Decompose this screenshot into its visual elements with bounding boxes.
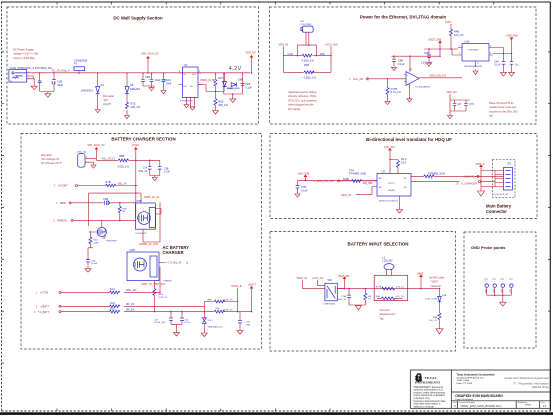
note: RH label charger xyxy=(41,153,62,165)
SECTION D: level translator box xyxy=(270,134,537,219)
doc number row xyxy=(453,401,547,408)
svg-text:VBL_DC1.5: VBL_DC1.5 xyxy=(102,156,116,160)
svg-text:DC Wall Supply Section: DC Wall Supply Section xyxy=(113,16,163,21)
svg-text:VBL_DC/A_5V: VBL_DC/A_5V xyxy=(88,143,105,147)
ground under jack xyxy=(91,164,96,168)
capacitor C8B opamp rail xyxy=(392,55,411,66)
LED D6 xyxy=(223,73,241,90)
svg-text:C: C xyxy=(454,404,456,408)
svg-text:ETM, DVI, only powered: ETM, DVI, only powered xyxy=(288,98,317,102)
ground under C35 xyxy=(237,331,243,335)
capacitor C48 xyxy=(494,54,505,73)
svg-text:CHARGER: CHARGER xyxy=(163,250,184,255)
capacitor C2B xyxy=(40,73,64,94)
port GVL_D5 xyxy=(349,77,406,81)
svg-text:Texas Instruments Incorporated: Texas Instruments Incorporated xyxy=(457,373,495,376)
svg-text:2.2R_1%: 2.2R_1% xyxy=(224,300,233,302)
zener D7 xyxy=(227,77,243,90)
svg-text:VDD7_5VB: VDD7_5VB xyxy=(428,38,442,42)
note: separate feed text xyxy=(288,90,317,111)
svg-text:R5B: R5B xyxy=(159,294,164,296)
svg-text:C34: C34 xyxy=(143,168,148,170)
svg-text:D4: D4 xyxy=(101,83,105,87)
resistor R17 xyxy=(214,92,229,110)
svg-text:VBAT_IN: VBAT_IN xyxy=(297,276,308,280)
svg-text:Connector: Connector xyxy=(486,209,507,214)
connector J1 DC power jack xyxy=(9,66,52,83)
svg-text:VDD_IN: VDD_IN xyxy=(279,42,289,46)
svg-text:rail.: rail. xyxy=(489,114,493,118)
svg-text:5.1K: 5.1K xyxy=(401,160,407,164)
svg-text:DNF: DNF xyxy=(246,325,251,327)
svg-text:C4B: C4B xyxy=(424,53,429,55)
svg-text:CTL-BQ_24: CTL-BQ_24 xyxy=(168,261,182,265)
svg-text:Q2B: Q2B xyxy=(130,248,135,252)
note: 3rd RH label xyxy=(429,275,445,287)
capacitor C3A xyxy=(337,289,358,305)
svg-text:5.76_1%: 5.76_1% xyxy=(391,90,402,94)
svg-text:Place C8 and C76 as: Place C8 and C76 as xyxy=(489,101,514,105)
svg-text:0.1uF: 0.1uF xyxy=(494,65,500,67)
svg-text:DNF_16: DNF_16 xyxy=(138,171,147,173)
ground under C4B xyxy=(427,61,432,66)
diode D4 xyxy=(81,73,105,108)
svg-text:0.1uF: 0.1uF xyxy=(185,322,191,324)
SECTION C: Battery charger box xyxy=(21,134,262,350)
ground under C7B xyxy=(295,193,300,198)
port START xyxy=(53,219,136,223)
port TS_BATT xyxy=(34,310,252,314)
ground under R18 xyxy=(385,101,390,104)
svg-text:Out 2mA: Out 2mA xyxy=(380,308,391,312)
svg-text:C4B: C4B xyxy=(91,260,96,262)
svg-text:CON_PWR2: CON_PWR2 xyxy=(300,24,312,26)
svg-text:+VCC_5VA: +VCC_5VA xyxy=(325,42,338,46)
svg-text:D5: D5 xyxy=(130,83,134,87)
junctions probe rail xyxy=(494,294,504,296)
regulator U14 xyxy=(458,40,493,68)
svg-text:100_1%: 100_1% xyxy=(454,33,464,37)
ground under R17 xyxy=(213,110,219,115)
svg-text:DQ_PM: DQ_PM xyxy=(363,181,372,185)
switch U40 xyxy=(324,278,345,306)
svg-text:VDD5B_AC_CHG: VDD5B_AC_CHG xyxy=(139,243,158,246)
svg-text:+10uF: +10uF xyxy=(91,263,98,265)
svg-text:1N4004S1: 1N4004S1 xyxy=(81,89,94,93)
svg-text:5001: 5001 xyxy=(500,289,502,293)
wire: U2 pin2 link xyxy=(198,85,224,92)
svg-text:R16: R16 xyxy=(218,76,223,80)
svg-text:AC-DET: AC-DET xyxy=(58,184,68,188)
svg-text:100K: 100K xyxy=(94,242,100,244)
wire: vcc feed xyxy=(298,181,378,186)
resistor R50 xyxy=(359,289,373,305)
power flag VDD_5V xyxy=(246,51,256,73)
resistor R61 xyxy=(110,301,136,308)
net label CHG_TS xyxy=(464,175,479,179)
svg-text:0R_1%: 0R_1% xyxy=(126,307,135,311)
svg-text:DNL_1%: DNL_1% xyxy=(126,288,137,292)
svg-text:VDD_5V0_PG: VDD_5V0_PG xyxy=(430,74,447,78)
ground under U9 xyxy=(397,208,403,213)
svg-text:200_1%: 200_1% xyxy=(131,105,141,109)
svg-text:SN74LVC2T45DCU: SN74LVC2T45DCU xyxy=(379,201,399,203)
wire: U14 output rail xyxy=(452,48,512,56)
ground under probes xyxy=(500,302,506,306)
svg-text:3rd RH Label: 3rd RH Label xyxy=(429,275,445,279)
grounds under U2 xyxy=(184,103,189,108)
svg-text:(PMOSSW): (PMOSSW) xyxy=(324,304,336,306)
svg-text:Power Distribution: Power Distribution xyxy=(455,398,474,401)
svg-text:C89: C89 xyxy=(145,75,150,79)
ground under C3A R50 xyxy=(356,305,362,310)
svg-text:R1B: R1B xyxy=(304,63,309,67)
svg-text:D2A: D2A xyxy=(442,294,447,297)
svg-text:VDD_5V: VDD_5V xyxy=(246,51,256,55)
svg-text:12500 TI Blvd: 12500 TI Blvd xyxy=(457,380,470,382)
svg-text:2.2R_1%: 2.2R_1% xyxy=(224,309,233,311)
net label HDQ_5A xyxy=(341,193,372,197)
ground under C8 C76 xyxy=(448,111,453,119)
junction VCHG node xyxy=(135,160,151,162)
junction charger loop xyxy=(135,192,137,194)
capacitor C49 xyxy=(510,54,519,73)
svg-text:MBB: MBB xyxy=(60,201,66,205)
svg-text:TPS76333: TPS76333 xyxy=(468,50,479,52)
svg-text:C76: C76 xyxy=(469,102,474,106)
resistor R89 PROG row xyxy=(204,300,237,312)
svg-text:PWRGD: PWRGD xyxy=(164,280,173,282)
svg-text:VDD_DC/A_5V: VDD_DC/A_5V xyxy=(141,52,159,56)
power flag VDD7_5VB xyxy=(428,38,442,57)
svg-text:Bi-directional level translato: Bi-directional level translator for HDQ … xyxy=(366,137,452,142)
wire: 5VB rail xyxy=(424,48,458,50)
svg-text:VDD_AN: VDD_AN xyxy=(446,90,457,94)
resistor R15 xyxy=(126,102,141,115)
grounds under C48 C49 xyxy=(501,72,507,76)
resistor R4B xyxy=(445,21,464,49)
title block xyxy=(410,370,550,408)
svg-text:RH Label: RH Label xyxy=(41,153,52,157)
resistor R16 xyxy=(214,73,223,92)
resistor R18 divider xyxy=(386,79,402,101)
svg-text:R1B: R1B xyxy=(122,208,127,210)
svg-text:SMAJ5A: SMAJ5A xyxy=(130,87,140,91)
svg-text:C8: C8 xyxy=(458,102,462,106)
net label PROG_B xyxy=(204,285,242,313)
resistor R62 xyxy=(110,306,136,313)
svg-text:C3B: C3B xyxy=(164,168,169,170)
resistor R1B pullup xyxy=(389,157,407,173)
capacitor C3 xyxy=(143,73,167,86)
junctions VBAT rail xyxy=(344,288,441,290)
svg-text:VBL_IN: VBL_IN xyxy=(118,181,127,185)
ground under C49 xyxy=(509,72,515,76)
svg-text:PTH08080W: PTH08080W xyxy=(180,101,193,103)
ground under R5A xyxy=(436,328,443,334)
svg-text:OMAP35X EVM MAIN BOARD: OMAP35X EVM MAIN BOARD xyxy=(455,394,503,398)
svg-text:U2: U2 xyxy=(184,63,188,67)
svg-text:TEXAS: TEXAS xyxy=(425,376,437,380)
svg-text:Dallas, TX 75243: Dallas, TX 75243 xyxy=(457,383,474,385)
svg-text:VDD_5VA: VDD_5VA xyxy=(506,34,518,38)
svg-text:100_1%: 100_1% xyxy=(429,320,437,322)
ground under U14 xyxy=(473,70,478,75)
svg-text:5001: 5001 xyxy=(492,289,494,293)
junction on opamp input xyxy=(387,78,389,80)
svg-text:SMBJ5A5.0-13: SMBJ5A5.0-13 xyxy=(208,326,223,329)
svg-text:measure": measure" xyxy=(431,284,442,288)
svg-text:PWRON: PWRON xyxy=(57,219,67,223)
wire: probe gnd rail xyxy=(487,295,512,302)
svg-text:15uF: 15uF xyxy=(57,83,63,87)
charger control loop xyxy=(89,193,161,242)
svg-text:JP1: JP1 xyxy=(507,161,512,165)
svg-text:0.1uF: 0.1uF xyxy=(164,172,170,174)
junctions U14 output xyxy=(503,53,513,55)
svg-text:DC_5V_Reg_A: DC_5V_Reg_A xyxy=(52,68,70,72)
ground under loop xyxy=(230,94,236,103)
svg-text:[+]: [+] xyxy=(516,64,519,67)
SECTION B: Power for the Ethernet box xyxy=(270,7,537,124)
svg-text:TLV3011AIDBV: TLV3011AIDBV xyxy=(415,86,431,89)
svg-text:TS_BATT: TS_BATT xyxy=(38,310,50,314)
svg-text:+BATT: +BATT xyxy=(248,282,256,286)
svg-text:Power for the Ethernet, DVI,JT: Power for the Ethernet, DVI,JTAG domain xyxy=(360,15,447,20)
svg-text:1%: 1% xyxy=(368,299,371,301)
svg-text:Voltage = 5.0V +/- 5%: Voltage = 5.0V +/- 5% xyxy=(13,52,39,56)
svg-text:R8B: R8B xyxy=(119,154,124,158)
junctions 5VB rail xyxy=(428,48,452,57)
svg-text:D1-2: D1-2 xyxy=(208,320,214,322)
svg-text:+VTTB: +VTTB xyxy=(40,290,48,294)
resistor R2B shunt bottom xyxy=(304,71,317,79)
svg-text:R17B: R17B xyxy=(391,87,398,91)
svg-text:0.02_1%: 0.02_1% xyxy=(396,296,404,298)
svg-text:RH Label: RH Label xyxy=(103,94,114,98)
svg-text:508_1%: 508_1% xyxy=(218,103,228,107)
capacitor C35 xyxy=(238,312,251,331)
svg-text:INSTRUMENTS: INSTRUMENTS xyxy=(415,380,440,384)
svg-text:C1B: C1B xyxy=(245,82,250,86)
svg-text:R5A: R5A xyxy=(433,316,438,319)
svg-text:TP2: TP2 xyxy=(492,279,495,281)
svg-text:DQB: DQB xyxy=(343,177,349,181)
power flag VCHG xyxy=(132,143,140,160)
wire: charger output down xyxy=(154,281,156,289)
svg-text:"AC": "AC" xyxy=(103,98,109,102)
charger Q2 xyxy=(127,242,166,281)
connector J11 xyxy=(494,161,513,196)
SECTION F: GND probe points box xyxy=(464,232,536,348)
svg-text:PMOSFET: PMOSFET xyxy=(106,241,117,243)
ground battery return xyxy=(478,187,485,197)
svg-text:TP3: TP3 xyxy=(500,279,503,281)
resistor R30 xyxy=(89,231,99,248)
svg-text:C48: C48 xyxy=(494,61,499,63)
diode D5 xyxy=(125,73,140,102)
svg-text:10uF_16: 10uF_16 xyxy=(337,299,346,301)
svg-text:Rev: Rev xyxy=(542,402,545,404)
ground under caps xyxy=(45,94,51,98)
svg-text:A_CHARGER: A_CHARGER xyxy=(461,182,477,186)
regulator U2 xyxy=(179,63,203,104)
svg-text:subject to change.: subject to change. xyxy=(414,404,435,408)
zener cap loop xyxy=(224,73,243,94)
MOSFET Q3 high side xyxy=(136,199,162,242)
sense resistor box xyxy=(374,275,408,300)
svg-text:+10uF_16V: +10uF_16V xyxy=(154,322,166,324)
svg-text:R4B: R4B xyxy=(454,30,459,34)
junctions bottom rail xyxy=(154,292,253,313)
svg-text:BATTERY INPUT SELECTION: BATTERY INPUT SELECTION xyxy=(348,242,409,247)
svg-text:+VCC_5A: +VCC_5A xyxy=(312,276,324,280)
wire: jack pin2 pin3 drop xyxy=(27,76,35,86)
svg-text:51.0: 51.0 xyxy=(110,287,116,291)
probe point TP1 xyxy=(484,279,489,295)
wire: sense bridge xyxy=(283,45,331,72)
svg-text:0.1uF: 0.1uF xyxy=(398,62,405,66)
svg-text:C7B: C7B xyxy=(301,185,306,189)
note: out 2mA measurement tap xyxy=(380,308,396,320)
svg-text:TPS76333MDBVR: TPS76333MDBVR xyxy=(464,66,483,68)
op-amp U7 comparator xyxy=(391,56,462,88)
power flag VDD_DC/A_5V xyxy=(141,52,159,73)
wire: main VBAT rail xyxy=(337,288,439,290)
port AC-DET xyxy=(54,184,106,188)
svg-text:C6B: C6B xyxy=(103,197,108,201)
TVS diode D1-2 xyxy=(202,312,223,333)
resistor R5A xyxy=(429,313,441,328)
level translator U9 xyxy=(372,160,460,209)
svg-text:R4A: R4A xyxy=(376,295,381,298)
svg-text:0.05Ω_1%: 0.05Ω_1% xyxy=(304,75,317,79)
net label A_CHG_HDQ xyxy=(456,181,496,186)
svg-text:DC Power Supply:: DC Power Supply: xyxy=(13,48,34,52)
resistor R60 xyxy=(110,287,138,294)
svg-text:U14: U14 xyxy=(465,40,470,44)
note: RH Label text xyxy=(103,94,114,106)
svg-text:LTST_C190: LTST_C190 xyxy=(425,299,437,301)
capacitor C13 xyxy=(162,73,172,91)
junction LED node xyxy=(215,91,217,93)
port MBB xyxy=(56,197,136,205)
port CTL-BQ24 xyxy=(168,261,190,265)
note: DC power supply spec text xyxy=(13,48,39,60)
ground under D1B xyxy=(201,333,207,337)
svg-text:VDD5_AC_5A: VDD5_AC_5A xyxy=(144,196,160,199)
battery connector dashed box xyxy=(493,160,516,198)
svg-text:(NDA# Only): (NDA# Only) xyxy=(532,385,549,389)
svg-text:C4B: C4B xyxy=(238,77,243,81)
junctions sense bridge xyxy=(297,44,332,56)
svg-text:DNF: DNF xyxy=(166,81,172,85)
svg-text:U7: U7 xyxy=(409,67,413,71)
svg-text:GVL_D5: GVL_D5 xyxy=(353,77,364,81)
svg-text:C8B: C8B xyxy=(398,58,403,62)
wire: main 5V rail xyxy=(27,72,250,74)
probe point TP4 xyxy=(509,279,513,295)
svg-text:C13: C13 xyxy=(166,78,171,82)
inductor L1 xyxy=(382,255,394,275)
svg-text:0.1uF: 0.1uF xyxy=(245,86,252,90)
svg-text:51.0: 51.0 xyxy=(110,306,116,310)
svg-text:0R_1%: 0R_1% xyxy=(126,302,135,306)
probe point TP2 xyxy=(492,279,497,295)
svg-text:Document Number: Document Number xyxy=(459,401,475,404)
NDA notice xyxy=(504,376,549,389)
power flag VBAT_A xyxy=(476,163,496,187)
svg-text:VCHT: VCHT xyxy=(445,21,452,24)
svg-text:TPWIRE_SAB: TPWIRE_SAB xyxy=(349,172,366,176)
resistor R1B shunt top xyxy=(302,54,315,67)
SECTION A: DC Wall Supply Section box xyxy=(7,7,259,124)
svg-text:2.2Ω: 2.2Ω xyxy=(288,52,294,56)
net label +VCC_5A xyxy=(312,276,325,285)
svg-text:U9: U9 xyxy=(382,169,386,173)
svg-text:LQH_5N: LQH_5N xyxy=(382,259,392,263)
power flag VDD_3V3 xyxy=(384,146,395,160)
svg-text:DNL: DNL xyxy=(320,52,326,56)
board title xyxy=(455,394,503,401)
svg-text:C2B: C2B xyxy=(57,79,62,83)
ground under C41 C42 xyxy=(174,324,180,336)
capacitor C40 xyxy=(86,248,98,267)
svg-text:"VBAT: "VBAT xyxy=(431,280,439,284)
svg-text:CON_BOX_4P: CON_BOX_4P xyxy=(494,194,509,196)
company address xyxy=(457,373,495,385)
power flag VDD_5VA xyxy=(506,34,518,54)
svg-text:SMAJ_5V: SMAJ_5V xyxy=(227,87,237,90)
wire: +BATT to charger xyxy=(159,267,161,293)
port -BATT xyxy=(36,304,205,308)
junction dots on rail xyxy=(39,72,252,74)
net label VDD_AN xyxy=(446,90,470,111)
svg-text:Size: Size xyxy=(453,402,457,404)
probe point TP3 xyxy=(500,279,504,295)
wire: charger input xyxy=(96,159,159,161)
capacitor C42 xyxy=(171,312,191,325)
port +BATT xyxy=(36,290,160,294)
LED D2A xyxy=(425,289,446,313)
svg-text:R1B: R1B xyxy=(218,99,223,103)
resistor R1B mid xyxy=(118,202,127,221)
svg-text:C3A: C3A xyxy=(342,295,347,298)
ground under U2 pins 2-3 xyxy=(190,103,195,110)
ground under jack xyxy=(31,86,37,90)
power flag VBAT xyxy=(417,272,424,289)
power flag VBAT_MN xyxy=(338,275,349,289)
fuse F1 COMMODOR PJ xyxy=(74,58,88,73)
resistor R7B xyxy=(106,180,138,187)
disclaimer text xyxy=(414,385,447,409)
svg-text:Under Non Disclosure Agreement: Under Non Disclosure Agreement xyxy=(504,376,549,380)
svg-text:4.7Ω_1%: 4.7Ω_1% xyxy=(396,286,405,288)
svg-text:Main Battery: Main Battery xyxy=(486,204,512,209)
transistor Q1 xyxy=(89,220,118,242)
junctions zener loop xyxy=(223,72,243,95)
capacitor C1B xyxy=(241,82,253,89)
svg-text:Current =2.5A Max: Current =2.5A Max xyxy=(13,56,35,60)
svg-text:AC-Charger OUT": AC-Charger OUT" xyxy=(41,161,62,165)
label AC BATTERY CHARGER xyxy=(163,245,190,255)
svg-text:9/9/08: 9/9/08 xyxy=(525,404,532,406)
svg-text:HDQ8V: HDQ8V xyxy=(388,190,396,192)
svg-text:-VBATT: -VBATT xyxy=(40,304,49,308)
svg-text:Separate feed for debug: Separate feed for debug xyxy=(288,90,317,94)
svg-text:4.2V: 4.2V xyxy=(229,66,242,72)
svg-text:Measurement: Measurement xyxy=(380,312,396,316)
